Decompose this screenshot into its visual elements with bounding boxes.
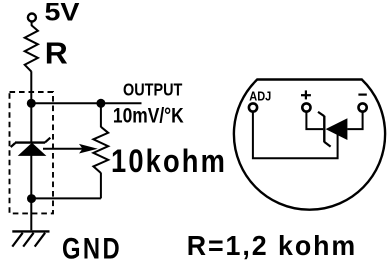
dashed box LM335 (10, 92, 54, 213)
svg-text:10mV/°K: 10mV/°K (113, 103, 184, 127)
internal zener bar (323, 116, 325, 143)
wire pot bottom (100, 173, 102, 199)
svg-text:GND: GND (62, 233, 122, 266)
wire ADJ pin (253, 111, 338, 158)
wire plus pin (306, 112, 323, 129)
svg-text:R=1,2 kohm: R=1,2 kohm (187, 230, 358, 261)
ground hatch 3 (35, 233, 45, 247)
internal zener bottom bend (324, 142, 330, 147)
node junction bottom (27, 194, 36, 203)
wire pot top (100, 103, 102, 127)
wire anode to ground (30, 155, 32, 231)
internal zener triangle (326, 118, 348, 140)
wiper arrow line (43, 148, 83, 150)
zener left bend (11, 143, 16, 147)
svg-text:OUTPUT: OUTPUT (123, 79, 183, 99)
wire terminal to resistor (31, 22, 33, 26)
ground hatch 1 (12, 233, 22, 247)
zener right bend (45, 138, 50, 143)
ground hatch 2 (23, 233, 33, 247)
node junction pot top (96, 99, 105, 108)
terminal 5V (28, 14, 36, 22)
svg-text:5V: 5V (45, 0, 80, 27)
ground bar (12, 230, 49, 232)
wiper arrow head (79, 144, 98, 154)
wire minus pin (347, 112, 362, 129)
pin ADJ (249, 103, 257, 111)
package TO-92 outline (234, 80, 385, 210)
svg-text:R: R (45, 36, 68, 71)
potentiometer 10kohm (93, 127, 108, 173)
wire pot bottom rail (32, 197, 101, 199)
wire output rail (31, 102, 141, 104)
node junction top (27, 99, 36, 108)
pin minus (359, 103, 367, 111)
zener diode D1 cathode bar (15, 141, 45, 143)
zener diode D1 anode triangle (19, 143, 45, 155)
internal zener top bend (318, 112, 324, 116)
wire resistor to zener cathode (30, 71, 32, 142)
pin plus (302, 103, 310, 111)
label minus (358, 93, 366, 95)
svg-text:ADJ: ADJ (249, 89, 271, 104)
svg-text:10kohm: 10kohm (111, 143, 227, 179)
resistor R (25, 25, 38, 71)
label plus (301, 94, 311, 96)
